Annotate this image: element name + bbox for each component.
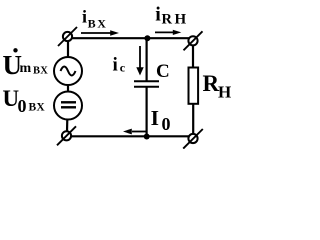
AC source U_m вх [54,57,82,85]
terminal output top-right [184,31,203,50]
wire from top-left terminal down to AC source [67,40,69,58]
svg-text:0: 0 [18,96,27,116]
wire top horizontal [71,37,189,39]
wire from DC source down to bottom-left terminal [66,119,69,132]
terminal input top-left [58,27,77,46]
svg-text:Н: Н [218,83,231,102]
resistor R_H body [189,68,199,104]
svg-text:ВХ: ВХ [29,101,46,113]
label i_C [113,55,126,76]
svg-text:i: i [82,7,87,27]
svg-text:I: I [151,106,159,130]
current arrow i_вх [81,30,119,35]
label i_RН [155,4,186,28]
junction node top [144,35,150,41]
current arrow I_0 [123,129,147,135]
junction node bottom [144,134,150,140]
svg-text:R: R [203,71,220,96]
wire capacitor branch lower [146,87,148,137]
wire bottom horizontal [71,135,190,137]
svg-text:ВХ: ВХ [88,17,108,31]
DC source U_0 вх [54,92,82,120]
wire from top-right terminal down to resistor [192,45,194,68]
label Ů_m вх (AC source voltage) [3,48,49,80]
svg-text:m: m [20,61,32,76]
svg-text:0: 0 [162,114,171,134]
current arrow i_RН [155,30,181,35]
label I_0 [151,106,171,134]
terminal input bottom-left [57,126,76,145]
wire capacitor branch upper [146,38,148,81]
label R_Н (load resistor) [203,71,232,102]
label i_вх [82,7,108,31]
wire between AC and DC sources [67,85,69,92]
svg-text:i: i [113,55,118,76]
current arrow i_C [136,46,143,76]
capacitor C plates [134,81,159,87]
svg-text:с: с [120,61,126,75]
svg-text:C: C [156,61,170,82]
svg-text:ВХ: ВХ [33,66,48,77]
svg-text:Н: Н [175,12,187,28]
svg-text:i: i [155,4,161,26]
terminal output bottom-right [183,129,203,149]
wire from resistor down to bottom-right terminal [192,104,194,134]
svg-text:R: R [162,12,173,28]
label U_0 вх (DC source voltage) [3,86,46,116]
